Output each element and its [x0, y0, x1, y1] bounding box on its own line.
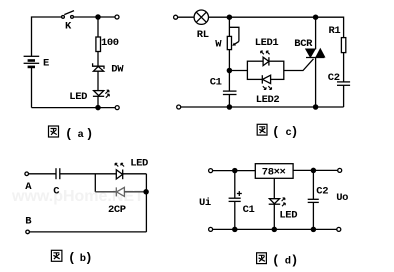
capacitor C1 (d)	[229, 198, 241, 201]
node: C2 top junction (d)	[311, 168, 315, 172]
wire: top rail to right corner	[316, 17, 344, 37]
caption figure (c)	[257, 124, 297, 140]
terminal: (c) top left	[174, 15, 178, 19]
node: LED branch junction	[227, 68, 231, 72]
wire: terminal to lamp	[178, 16, 195, 18]
LED (d)	[269, 198, 286, 206]
node: bottom junction (a)	[96, 106, 100, 110]
wire: node to terminal	[98, 16, 115, 18]
svg-text:d: d	[285, 255, 291, 267]
wire: bottom rail (c)	[181, 106, 344, 108]
wire: loop bottom right segment	[124, 191, 146, 193]
capacitor C2 (c)	[337, 82, 350, 85]
node: BCR bottom junction	[314, 105, 318, 109]
node: top junction (a)	[96, 15, 100, 19]
LED (b)	[115, 163, 124, 179]
svg-text:LED: LED	[279, 210, 297, 222]
svg-text:LED: LED	[130, 158, 148, 170]
svg-text:): )	[293, 124, 297, 139]
node: pot top junction	[227, 15, 231, 19]
terminal: (d) top left	[209, 169, 213, 173]
terminal: (d) bottom right	[337, 227, 341, 231]
capacitor C2 (d)	[308, 199, 319, 202]
caption figure (a)	[49, 126, 92, 142]
svg-text:C1: C1	[243, 204, 255, 216]
wire: node down to resistor	[97, 17, 99, 37]
wire: A to capacitor C	[29, 173, 56, 175]
svg-text:C1: C1	[210, 77, 222, 89]
wire: C2 to bottom rail	[343, 85, 345, 107]
capacitor C	[56, 168, 60, 179]
node: C1 bottom junction (d)	[233, 227, 237, 231]
wire: regulator mid pin	[273, 178, 275, 198]
svg-text:): )	[87, 250, 91, 265]
wire: LED to bottom	[97, 96, 99, 107]
svg-text:): )	[88, 126, 92, 141]
wire: pot to LED node	[228, 50, 230, 71]
wire: node to LED box	[229, 70, 247, 72]
node: C1 bottom junction	[227, 105, 231, 109]
wire: C2 branch (d)	[312, 170, 314, 199]
svg-text:(: (	[274, 252, 279, 267]
node: junction (b)	[144, 190, 148, 194]
wire: bottom rail (d)	[213, 228, 337, 230]
wire: bottom rail (a)	[32, 107, 116, 109]
wire: loop left vertical	[94, 174, 96, 192]
wire: C2 to bottom (d)	[312, 202, 314, 229]
wire: bottom rail (b)	[30, 231, 147, 233]
battery E	[24, 56, 40, 67]
svg-text:Uo: Uo	[336, 192, 348, 204]
wire: C to LED	[60, 173, 117, 175]
wire: C1 branch (d)	[234, 171, 236, 199]
svg-text:): )	[293, 252, 297, 267]
resistor 100	[96, 37, 101, 52]
terminal: (d) top right	[338, 168, 342, 172]
svg-text:100: 100	[101, 37, 119, 49]
wire: resistor to zener	[97, 52, 99, 67]
svg-text:Ui: Ui	[199, 197, 211, 209]
svg-text:RL: RL	[197, 29, 209, 41]
caption figure (b)	[51, 250, 91, 266]
svg-text:BCR: BCR	[294, 38, 313, 50]
svg-text:2CP: 2CP	[108, 204, 126, 216]
wire: C1 to bottom rail	[228, 95, 230, 108]
capacitor C1 (c)	[223, 91, 237, 94]
terminal: (a) bottom right	[115, 106, 119, 110]
wire: battery bottom	[31, 67, 33, 108]
wire: C1 to bottom (d)	[234, 201, 236, 229]
terminal B	[26, 230, 30, 234]
LED (a)	[93, 90, 109, 98]
LED2	[262, 75, 271, 89]
wire: LED to right corner	[123, 173, 147, 175]
terminal A	[25, 172, 29, 176]
svg-text:C2: C2	[328, 72, 340, 84]
svg-text:R1: R1	[329, 25, 341, 37]
wire: zener to LED	[97, 71, 99, 90]
triac BCR	[306, 17, 324, 107]
svg-text:LED: LED	[69, 91, 87, 103]
wire: right vertical (b)	[145, 174, 147, 232]
wire: loop bottom left segment	[95, 191, 116, 193]
wire: terminal to box	[213, 170, 256, 172]
svg-text:c: c	[286, 127, 292, 139]
node: C1 top junction (d)	[233, 169, 237, 173]
svg-text:DW: DW	[111, 63, 124, 75]
node: BCR top junction	[314, 15, 318, 19]
regulator box 78xx	[255, 164, 293, 179]
diode 2CP	[116, 187, 124, 196]
lamp RL	[194, 10, 208, 24]
wire: box to right terminal	[293, 169, 338, 171]
terminal: (a) top right	[115, 15, 119, 19]
LED1	[261, 51, 270, 66]
potentiometer W	[227, 17, 239, 49]
svg-text:(: (	[274, 124, 279, 139]
caption figure (d)	[257, 252, 297, 268]
resistor R1	[341, 38, 345, 53]
LED box frame	[247, 61, 283, 79]
svg-text:C2: C2	[316, 186, 328, 198]
zener diode DW	[93, 63, 104, 71]
wire: switch to node	[74, 16, 99, 18]
wire: LED box to BCR gate	[284, 59, 314, 71]
svg-text:E: E	[43, 57, 49, 69]
node: LED bottom junction (d)	[272, 227, 276, 231]
wire: top rail to BCR branch	[229, 16, 315, 18]
wire: R1 to C2	[343, 53, 345, 82]
svg-text:(: (	[70, 250, 75, 265]
svg-text:b: b	[80, 253, 86, 265]
wire: battery top to switch	[32, 17, 62, 56]
wire: LED to bottom (d)	[273, 204, 275, 229]
wire: lamp to top rail	[209, 16, 230, 18]
wire: C1 branch vertical	[228, 71, 230, 92]
svg-text:LED2: LED2	[256, 94, 280, 106]
svg-text:(: (	[67, 126, 72, 141]
svg-text:LED1: LED1	[255, 37, 279, 49]
polarity plus sign	[237, 191, 242, 196]
node: C2 bottom junction (d)	[311, 227, 315, 231]
svg-text:78××: 78××	[262, 167, 286, 179]
terminal: (c) bottom left	[177, 105, 181, 109]
switch K	[62, 11, 74, 19]
terminal: (d) bottom left	[209, 227, 213, 231]
